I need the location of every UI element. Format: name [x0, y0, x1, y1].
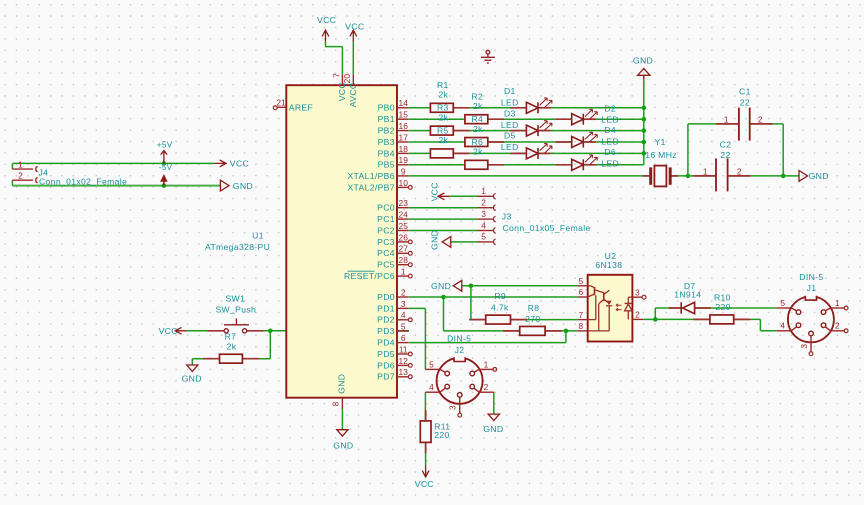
wire PD1 — [409, 307, 425, 309]
svg-text:XTAL1/PB6: XTAL1/PB6 — [347, 171, 394, 181]
pin 1 of R11 — [425, 410, 427, 421]
wire SW1 node down to R7 — [269, 331, 271, 359]
svg-text:PD1: PD1 — [377, 303, 395, 313]
svg-text:VCC: VCC — [429, 182, 439, 201]
pin 2 of R9 — [511, 319, 528, 321]
pin 6 PD4 of U1 — [397, 342, 409, 344]
pin 21 AREF of U1 — [277, 106, 286, 108]
svg-text:13: 13 — [399, 367, 409, 377]
svg-text:D6: D6 — [604, 147, 616, 157]
resistor R1 2k — [430, 103, 453, 112]
capacitor C1 22 — [739, 108, 750, 141]
pin 7 of U2 — [578, 319, 588, 321]
connector J3 pin 5 — [478, 241, 493, 243]
junction PD0-R8 branch — [441, 295, 446, 300]
wire PB3 to resistor — [409, 141, 465, 143]
svg-text:2: 2 — [758, 115, 763, 125]
connector J3 pin 1 — [478, 195, 493, 197]
junction C2-C1 right — [781, 174, 786, 179]
wire PD0 node down to R8 row — [443, 297, 445, 331]
J2 pin 4 — [425, 391, 440, 393]
pin 3 PD1 of U1 — [397, 307, 409, 309]
wire LED cathode row 5 to GND column — [538, 152, 644, 154]
U2 internal photodiode — [616, 297, 632, 319]
svg-text:PD5: PD5 — [377, 349, 395, 359]
pin 1 of R9 — [469, 319, 486, 321]
wire PB0 to resistor — [409, 107, 430, 109]
svg-text:PB4: PB4 — [378, 148, 395, 158]
pin anode of LED row 1 — [510, 107, 526, 109]
svg-text:PB5: PB5 — [378, 160, 395, 170]
junction LED row4 — [642, 140, 647, 145]
pin 18 PB4 of U1 — [397, 152, 409, 154]
svg-text:22: 22 — [740, 97, 750, 107]
global label GND (crystal) — [799, 171, 808, 182]
wire VCC to J3 pin1 — [450, 195, 478, 197]
pin anode of D7 — [695, 307, 711, 309]
svg-text:Conn_01x05_Female: Conn_01x05_Female — [503, 223, 591, 233]
svg-text:PC4: PC4 — [377, 248, 395, 258]
svg-text:R9: R9 — [494, 291, 506, 301]
svg-text:26: 26 — [399, 232, 409, 242]
wire PC1 to J3 pin3 — [409, 218, 478, 220]
pin 6 of U2 — [578, 296, 588, 298]
global label VCC (U1 pin7) — [322, 30, 329, 42]
svg-text:3: 3 — [448, 405, 458, 410]
wire DIN-5 net up to U2 pin8 row — [565, 331, 567, 343]
svg-text:4: 4 — [401, 310, 406, 320]
svg-text:2: 2 — [835, 321, 840, 331]
resistor R8 270 — [520, 326, 545, 335]
svg-text:PB2: PB2 — [378, 126, 395, 136]
svg-text:D1: D1 — [504, 86, 516, 96]
svg-text:LED: LED — [601, 136, 619, 146]
wire PD1 down to J2 pin5 — [424, 308, 426, 369]
wire GND rail from J4 pin 2 — [12, 185, 220, 187]
pin 1 of R8 — [503, 330, 520, 332]
no-connect J1 pin 3 — [809, 352, 813, 356]
svg-text:4: 4 — [429, 382, 434, 392]
svg-text:1: 1 — [401, 267, 406, 277]
wire C2 to GND label — [728, 175, 799, 177]
svg-text:D4: D4 — [604, 125, 616, 135]
wire J2 pin4 down to R11 — [424, 392, 426, 421]
svg-text:19: 19 — [399, 155, 409, 165]
svg-text:2: 2 — [484, 382, 489, 392]
J1 pin 5 — [777, 307, 792, 309]
svg-text:VCC: VCC — [159, 326, 178, 336]
wire GND to R7 — [192, 358, 219, 360]
wire U1 pin8 to GND — [341, 409, 343, 429]
pin 11 PD5 of U1 — [397, 353, 409, 355]
svg-text:23: 23 — [399, 198, 409, 208]
svg-text:PC2: PC2 — [377, 225, 395, 235]
wire to C1 pin1 — [688, 123, 739, 125]
wire C1 right vertical — [782, 124, 784, 176]
svg-text:AREF: AREF — [289, 102, 313, 112]
pin 19 PB5 of U1 — [397, 164, 409, 166]
LED D2 — [572, 109, 598, 124]
LED D6 — [572, 155, 598, 170]
power symbol +5V — [161, 151, 167, 164]
svg-text:6N138: 6N138 — [595, 260, 622, 270]
svg-text:GND: GND — [233, 181, 253, 191]
svg-text:R8: R8 — [528, 303, 540, 313]
wire to R9 — [471, 319, 486, 321]
pin 12 PD6 of U1 — [397, 364, 409, 366]
svg-text:8: 8 — [331, 401, 341, 406]
svg-text:1: 1 — [703, 166, 708, 176]
svg-text:2k: 2k — [473, 101, 483, 111]
svg-text:4: 4 — [481, 220, 486, 230]
pin 9 XTAL1/PB6 of U1 — [397, 175, 409, 177]
crystal Y1 16 MHz — [651, 166, 671, 187]
wire resistor to LED row 4 — [488, 141, 572, 143]
svg-text:2: 2 — [481, 198, 486, 208]
no-connect J1 pin 2 — [844, 329, 848, 333]
connector J1 DIN-5 — [788, 296, 834, 343]
wire jog J4 pin2 — [11, 180, 13, 185]
wire R11 to VCC label — [425, 442, 427, 465]
pin 27 PC4 of U1 — [397, 252, 409, 254]
wire R7 to GND stub — [191, 359, 193, 365]
svg-text:18: 18 — [399, 144, 409, 154]
pin 2 of Y1 — [672, 175, 678, 177]
svg-text:2: 2 — [18, 171, 23, 181]
resistor R11 220 — [420, 421, 431, 443]
svg-text:PD4: PD4 — [377, 338, 395, 348]
wire C1 left vertical — [687, 124, 689, 176]
junction SW1-R7 — [268, 329, 273, 334]
svg-text:C1: C1 — [739, 87, 751, 97]
svg-text:6: 6 — [578, 287, 583, 297]
connector J3 pin 4 — [478, 230, 493, 232]
connector J3 pin 3 — [478, 218, 493, 220]
svg-text:220: 220 — [434, 430, 449, 440]
pin 2 of R3 — [453, 130, 469, 132]
wire to J1 pin4 — [760, 330, 776, 332]
pin 2 of R5 — [453, 152, 469, 154]
svg-text:VCC: VCC — [230, 159, 249, 169]
pin 2 PD0 of U1 — [397, 296, 409, 298]
pin 2 of R6 — [488, 164, 504, 166]
svg-text:R4: R4 — [472, 114, 484, 124]
wire U2 pin2 to R10 — [643, 318, 710, 320]
LED D5 — [526, 144, 552, 159]
pin 15 PB1 of U1 — [397, 118, 409, 120]
no-connect J2 pin 3 — [458, 413, 462, 417]
wire crystal to C2 — [672, 175, 716, 177]
svg-text:PB3: PB3 — [378, 137, 395, 147]
wire R10 out — [734, 318, 761, 320]
svg-text:5: 5 — [481, 232, 486, 242]
svg-text:GND: GND — [337, 374, 347, 394]
svg-text:DIN-5: DIN-5 — [799, 272, 823, 282]
no-connect J1 pin 1 — [844, 306, 848, 310]
svg-text:17: 17 — [399, 132, 409, 142]
wire XTAL1 to crystal — [409, 175, 649, 177]
wire PB2 to resistor — [409, 130, 430, 132]
svg-text:4.7k: 4.7k — [491, 302, 509, 312]
wire jog down to J1 pin4 — [759, 319, 761, 330]
svg-text:28: 28 — [399, 255, 409, 265]
svg-text:VCC: VCC — [345, 22, 364, 32]
svg-text:PD0: PD0 — [377, 292, 395, 302]
wire SW1 to PD3 across U1 — [247, 330, 409, 332]
svg-text:5: 5 — [401, 322, 406, 332]
wire GND to U2 pin5 — [462, 285, 578, 287]
wire LED cathode row 6 to GND column — [583, 164, 644, 166]
pin 2 of R2 — [488, 118, 504, 120]
svg-text:GND: GND — [429, 230, 439, 250]
LED D1 — [526, 98, 552, 113]
pin 28 PC5 of U1 — [397, 264, 409, 266]
svg-text:2k: 2k — [227, 342, 237, 352]
svg-text:21: 21 — [276, 98, 286, 108]
junction LED row3 — [642, 128, 647, 133]
junction LED row5 — [642, 151, 647, 156]
svg-text:AVCC: AVCC — [348, 83, 358, 108]
global label GND (J4 rail) — [220, 180, 229, 191]
wire to R8 — [444, 330, 520, 332]
pin 1 of R10 — [693, 318, 710, 320]
J1 pin 2 — [831, 330, 846, 332]
resistor R6 2k — [465, 160, 488, 169]
svg-text:16: 16 — [399, 121, 409, 131]
wire node up to D7 — [654, 308, 656, 319]
pin 8 GND of U1 — [341, 398, 343, 410]
svg-text:R5: R5 — [437, 126, 449, 136]
resistor R10 220 — [710, 315, 734, 324]
wire R8 to U2 pin8 — [545, 330, 578, 332]
pin anode of LED row 4 — [556, 141, 572, 143]
svg-text:8: 8 — [578, 321, 583, 331]
pin 7 VCC of U1 — [341, 74, 343, 85]
wire PB5 to resistor — [409, 164, 465, 166]
svg-text:PD6: PD6 — [377, 360, 395, 370]
pin 2 of R11 — [425, 442, 427, 453]
junction crystal-C1 left — [686, 174, 691, 179]
wire PD0 to U2 pin6 — [409, 296, 578, 298]
connector J4 pin 1 — [12, 168, 33, 170]
pin 13 PD7 of U1 — [397, 376, 409, 378]
svg-text:12: 12 — [399, 356, 409, 366]
resistor R4 2k — [465, 138, 488, 147]
svg-text:PB1: PB1 — [378, 114, 395, 124]
junction +5V on VCC rail — [162, 161, 167, 166]
wire LED cathode row 2 to GND column — [583, 118, 644, 120]
no-connect AREF pin 21 — [273, 106, 277, 110]
pin cathode of LED row 4 — [584, 141, 596, 143]
resistor R7 2k — [220, 354, 243, 363]
wire R7 to SW1 node — [242, 358, 270, 360]
svg-text:220: 220 — [715, 302, 730, 312]
svg-text:7: 7 — [578, 310, 583, 320]
wire LED cathode row 3 to GND column — [538, 130, 644, 132]
pin anode of LED row 2 — [556, 118, 572, 120]
svg-text:GND: GND — [333, 440, 353, 450]
svg-text:3: 3 — [635, 287, 640, 297]
svg-text:D3: D3 — [504, 108, 516, 118]
junction GND-R9 branch — [469, 284, 474, 289]
J2 pin 2 — [479, 391, 494, 393]
svg-text:10: 10 — [399, 178, 409, 188]
pin 2 of R4 — [488, 141, 504, 143]
svg-text:5: 5 — [578, 276, 583, 286]
svg-text:R6: R6 — [472, 137, 484, 147]
svg-text:C2: C2 — [720, 140, 732, 150]
svg-text:3: 3 — [401, 299, 406, 309]
global label GND (J3 pin5) — [442, 237, 451, 248]
pin 5 of U2 — [578, 285, 588, 287]
IC U1 ATmega328-PU body — [286, 85, 397, 398]
svg-text:7: 7 — [331, 73, 341, 78]
pin 2 of U2 — [632, 318, 643, 320]
wire resistor to LED row 1 — [453, 107, 526, 109]
svg-text:5: 5 — [780, 298, 785, 308]
svg-text:27: 27 — [399, 244, 409, 254]
wire D7 anode to J1 pin5 — [695, 307, 777, 309]
svg-text:PC5: PC5 — [377, 260, 395, 270]
wire resistor to LED row 3 — [453, 130, 526, 132]
pin 1 of SW1 — [208, 330, 224, 332]
svg-text:GND: GND — [483, 424, 503, 434]
junction -5V on GND rail — [162, 183, 167, 188]
svg-text:R1: R1 — [437, 80, 449, 90]
wire R9 to U2 pin7 — [511, 319, 578, 321]
wire PC2 to J3 pin4 — [409, 230, 478, 232]
svg-text:1: 1 — [18, 159, 23, 169]
wire PC0 to J3 pin2 — [409, 207, 478, 209]
J2 pin 5 — [425, 368, 440, 370]
resistor R5 2k — [430, 149, 453, 158]
pin cathode of LED row 2 — [584, 118, 596, 120]
wire resistor to LED row 5 — [453, 152, 526, 154]
wire GND column of LED block — [643, 80, 645, 165]
pin 17 PB3 of U1 — [397, 141, 409, 143]
wire resistor to LED row 6 — [488, 164, 572, 166]
pin 16 PB2 of U1 — [397, 130, 409, 132]
svg-text:PC0: PC0 — [377, 203, 395, 213]
pin 3 of U2 — [632, 296, 642, 298]
wire resistor to LED row 2 — [488, 118, 572, 120]
svg-text:1: 1 — [484, 359, 489, 369]
svg-text:25: 25 — [399, 221, 409, 231]
pin 1 of Y1 — [643, 175, 649, 177]
svg-text:LED: LED — [501, 98, 519, 108]
unconnected GND power symbol (earth) — [481, 50, 495, 63]
pin 2 of R1 — [453, 107, 469, 109]
svg-text:PC3: PC3 — [377, 237, 395, 247]
wire VCC to U1 pin20 — [352, 42, 354, 75]
svg-text:9: 9 — [401, 166, 406, 176]
svg-text:D5: D5 — [504, 130, 516, 140]
svg-text:GND: GND — [809, 171, 829, 181]
wire PD4 DIN-5 net — [409, 342, 566, 344]
connector J4 pin 2 — [12, 179, 33, 181]
svg-text:2k: 2k — [439, 112, 449, 122]
wire to D7 cathode — [655, 307, 681, 309]
svg-text:Conn_01x02_Female: Conn_01x02_Female — [39, 176, 127, 186]
svg-text:PB0: PB0 — [378, 103, 395, 113]
pin cathode of LED row 6 — [584, 164, 596, 166]
pin 8 of U2 — [578, 330, 588, 332]
pin 4 PD2 of U1 — [397, 319, 409, 321]
svg-text:5: 5 — [429, 359, 434, 369]
wire GND node down to R9 — [470, 286, 472, 320]
LED D3 — [526, 121, 552, 136]
pin anode of LED row 3 — [510, 130, 526, 132]
svg-text:LED: LED — [501, 120, 519, 130]
pin 2 of R10 — [734, 318, 751, 320]
svg-text:SW_Push: SW_Push — [215, 305, 256, 315]
wire VCC to U1 pin7 vertical — [325, 42, 327, 47]
svg-text:2: 2 — [737, 166, 742, 176]
pin 14 PB0 of U1 — [397, 107, 409, 109]
junction U2 pin2-D7-R10 — [653, 317, 658, 322]
svg-text:2k: 2k — [439, 135, 449, 145]
svg-text:VCC: VCC — [415, 479, 434, 489]
LED D4 — [572, 132, 598, 147]
global label GND (R7) — [187, 365, 198, 371]
svg-text:VCC: VCC — [317, 15, 336, 25]
svg-text:VCC: VCC — [337, 82, 347, 101]
pin 23 PC0 of U1 — [397, 207, 409, 209]
wire LED cathode row 1 to GND column — [538, 107, 644, 109]
pin cathode of LED row 1 — [539, 107, 551, 109]
global label GND (J2 pin2) — [488, 414, 499, 420]
svg-text:1: 1 — [724, 115, 729, 125]
global label GND (LED column) — [638, 69, 650, 76]
wire VCC to U1 pin7 horizontal — [325, 46, 342, 48]
svg-text:D2: D2 — [604, 104, 616, 114]
J2 pin 3 — [459, 398, 461, 414]
pin 25 PC2 of U1 — [397, 230, 409, 232]
svg-text:2k: 2k — [473, 147, 483, 157]
svg-text:16 MHz: 16 MHz — [645, 150, 677, 160]
global label GND (U2 pin5) — [453, 280, 462, 291]
svg-text:6: 6 — [401, 333, 406, 343]
svg-text:U1: U1 — [252, 230, 264, 240]
svg-text:1: 1 — [481, 186, 486, 196]
pin anode of LED row 6 — [556, 164, 572, 166]
switch SW1 SW_Push — [224, 318, 249, 333]
svg-text:+5V: +5V — [157, 140, 173, 149]
svg-text:3: 3 — [481, 209, 486, 219]
J1 pin 4 — [777, 330, 792, 332]
svg-text:LED: LED — [501, 142, 519, 152]
svg-text:PD7: PD7 — [377, 372, 395, 382]
svg-text:2: 2 — [401, 287, 406, 297]
svg-text:LED: LED — [601, 159, 619, 169]
svg-text:J3: J3 — [502, 212, 512, 222]
svg-text:15: 15 — [399, 110, 409, 120]
resistor R3 2k — [430, 126, 453, 135]
power symbol -5V — [161, 175, 167, 181]
wire J2 pin2 down to GND — [493, 392, 495, 414]
svg-text:270: 270 — [525, 314, 540, 324]
junction LED row1 — [642, 106, 647, 111]
svg-text:DIN-5: DIN-5 — [447, 333, 471, 343]
wire jog J4 pin1 — [11, 163, 13, 169]
svg-text:2k: 2k — [473, 124, 483, 134]
pin 2 of SW1 — [247, 330, 263, 332]
svg-text:RESET/PC6: RESET/PC6 — [344, 271, 395, 281]
pin 1 RESET/PC6 of U1 — [397, 275, 409, 277]
wire VCC to SW1 — [187, 330, 224, 332]
wire LED cathode row 4 to GND column — [583, 141, 644, 143]
connector J2 DIN-5 — [437, 357, 483, 404]
